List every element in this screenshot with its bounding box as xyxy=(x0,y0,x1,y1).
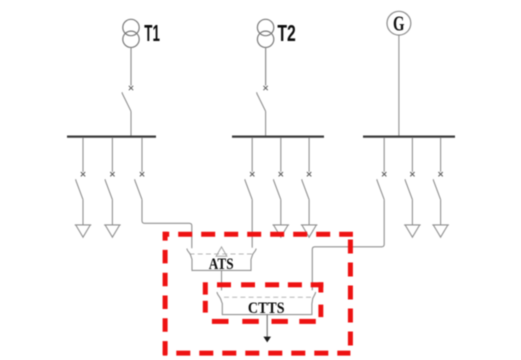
wire F3-2 xyxy=(411,200,413,225)
ATS tub body xyxy=(187,249,256,271)
wire F3-3 xyxy=(440,200,442,225)
feeder breaker F2-3 xyxy=(302,137,312,199)
red dashed boundary (inner, CTTS) xyxy=(203,282,324,324)
feeder breaker F3-2 xyxy=(405,137,415,199)
svg-text:T2: T2 xyxy=(277,20,295,46)
breaker T1 incomer xyxy=(122,48,133,136)
load arrow F2-3 xyxy=(301,225,318,237)
wire F2-3 xyxy=(308,200,310,225)
wire T2 to breaker xyxy=(265,48,267,86)
load arrow F1-2 xyxy=(104,225,121,237)
bus 1 xyxy=(67,135,156,137)
load arrow F2-2 xyxy=(273,225,290,237)
svg-text:CTTS: CTTS xyxy=(248,300,285,317)
wire F3-1 to CTTS right input xyxy=(312,200,384,291)
red dashed boundary (outer, ATS+CTTS) xyxy=(163,232,353,356)
ATS selector triangle xyxy=(216,247,227,256)
wire G to bus 3 xyxy=(398,35,400,135)
wire F2-2 xyxy=(280,200,282,225)
feeder breaker F3-3 xyxy=(433,137,443,199)
feeder breaker F2-1 xyxy=(245,137,255,199)
ATS dashed pole line xyxy=(190,253,254,255)
load arrow F1-1 xyxy=(75,225,92,237)
svg-text:G: G xyxy=(393,12,405,36)
svg-text:T1: T1 xyxy=(144,20,160,46)
feeder breaker F1-1 xyxy=(76,137,86,199)
wire F1-2 xyxy=(111,200,113,225)
breaker T2 incomer xyxy=(257,48,268,136)
transformer T2 xyxy=(257,19,273,47)
feeder breaker F3-1 xyxy=(377,137,387,199)
load arrow F3-2 xyxy=(404,225,421,237)
CTTS tub body xyxy=(217,292,316,315)
wire F1-1 xyxy=(82,200,84,225)
feeder breaker F2-2 xyxy=(273,137,283,199)
wire F1-3 to ATS left input xyxy=(142,200,192,249)
feeder breaker F1-3 xyxy=(135,137,145,199)
wire F2-1 to ATS right input xyxy=(251,200,253,248)
load arrow F3-3 xyxy=(432,225,449,237)
wire CTTS output xyxy=(266,315,268,337)
wire T1 to breaker xyxy=(130,48,132,86)
generator G xyxy=(387,11,411,35)
transformer T1 xyxy=(123,19,139,47)
CTTS output arrow (filled) xyxy=(263,337,271,343)
wire ATS output to CTTS left input xyxy=(221,270,223,290)
feeder breaker F1-2 xyxy=(105,137,115,199)
CTTS dashed pole line xyxy=(224,296,311,298)
bus 3 xyxy=(363,135,455,137)
bus 2 xyxy=(232,135,324,137)
